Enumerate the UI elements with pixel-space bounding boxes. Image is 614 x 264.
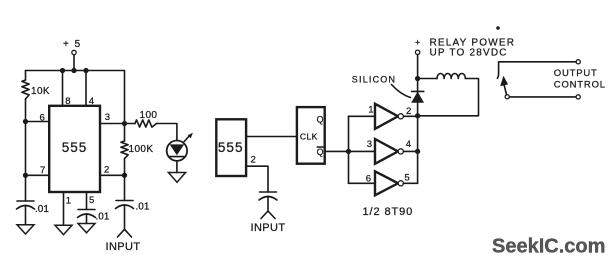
wire pin2 to C3 [124, 175, 126, 200]
svg-text:8: 8 [65, 96, 70, 107]
wire pin 3 [100, 112, 135, 124]
svg-text:+ 5: + 5 [63, 39, 82, 50]
capacitor C2 .01 [78, 210, 110, 223]
wire C3 to input arrow [124, 205, 126, 230]
wire C1 to ground [25, 205, 27, 224]
svg-text:CLK: CLK [300, 132, 318, 142]
relay contact armature [500, 76, 509, 99]
svg-text:+: + [415, 37, 420, 47]
svg-text:OUTPUT: OUTPUT [554, 68, 598, 79]
wire U2 pin 2 [246, 154, 268, 192]
svg-text:6: 6 [40, 113, 45, 124]
svg-text:5: 5 [89, 195, 94, 206]
wire U2 output to CLK [246, 136, 297, 138]
svg-text:4: 4 [406, 139, 411, 150]
capacitor C1 .01 [17, 201, 50, 215]
svg-text:1: 1 [66, 195, 71, 206]
wire +5 terminal to rail [73, 55, 75, 71]
svg-text:7: 7 [40, 165, 45, 176]
label OUTPUT CONTROL [554, 68, 606, 90]
node output junction 4 [415, 149, 420, 154]
ground pin1 [55, 225, 72, 234]
node rail junction pin8 [60, 68, 65, 73]
wire pin 1 [64, 192, 72, 225]
node input rail junction [346, 149, 351, 154]
wire pin 6 [26, 113, 50, 124]
node pin6 junction [23, 119, 28, 124]
wire C2 to ground [86, 214, 88, 224]
node pin3 junction [122, 121, 127, 126]
resistor R2 100 [135, 110, 157, 127]
svg-text:2: 2 [251, 154, 256, 165]
svg-text:2: 2 [406, 106, 411, 117]
wire Qbar output [325, 150, 349, 152]
resistor R1 10K [22, 80, 50, 99]
capacitor C3 .01 [116, 201, 150, 213]
ground C1 [17, 225, 34, 234]
IC U1 555 [49, 106, 100, 192]
svg-text:1: 1 [368, 104, 373, 115]
wire pin 7 [26, 165, 50, 176]
svg-text:1/2 8T90: 1/2 8T90 [363, 206, 414, 218]
wire +5 rail top [26, 71, 125, 124]
relay contact fixed line [497, 60, 580, 79]
node coil top junction [415, 76, 420, 81]
wire LED to ground [176, 161, 178, 173]
svg-text:6: 6 [366, 174, 371, 185]
stray footnote dot [496, 26, 500, 30]
node relay power terminal [415, 37, 420, 54]
wire pin 2 [100, 164, 125, 175]
inverter U4c pins 6-5 [349, 171, 418, 195]
svg-text:Q: Q [317, 147, 324, 157]
svg-text:SILICON: SILICON [352, 74, 396, 84]
svg-text:4: 4 [89, 96, 94, 107]
IC U3 flip-flop CLK [297, 107, 325, 164]
LED D1 [167, 133, 193, 161]
wire pin 4 [86, 71, 94, 108]
svg-text:100K: 100K [129, 144, 154, 155]
diode D2 silicon [412, 91, 424, 102]
svg-text:UP TO 28VDC: UP TO 28VDC [430, 48, 508, 59]
node +5 supply terminal [63, 39, 82, 55]
inverter U4b pins 3-4 [349, 139, 418, 164]
svg-text:.01: .01 [136, 202, 150, 213]
wire left rail upper [25, 71, 27, 81]
svg-text:SeekIC.com: SeekIC.com [492, 236, 605, 258]
node rail junction pin4 [83, 68, 88, 73]
wire pin 5 [87, 192, 95, 210]
node INPUT arrow left [118, 229, 132, 237]
svg-text:555: 555 [62, 140, 88, 155]
node rail junction supply [71, 68, 76, 73]
wire left rail lower [25, 99, 27, 201]
wire C4 to input arrow [267, 196, 269, 211]
inverter U4a pins 1-2 [349, 104, 418, 129]
svg-text:3: 3 [367, 139, 372, 150]
label SILICON with leader [352, 74, 411, 97]
IC U2 555 [216, 119, 246, 176]
ground C2 [78, 224, 95, 233]
svg-text:555: 555 [218, 140, 244, 155]
svg-text:3: 3 [105, 112, 110, 123]
svg-text:.01: .01 [35, 204, 49, 215]
node output junction 2 / coil return [415, 113, 420, 118]
svg-text:CONTROL: CONTROL [554, 80, 606, 91]
relay coil K1 [418, 73, 479, 115]
svg-text:INPUT: INPUT [106, 241, 141, 253]
svg-text:Q: Q [317, 115, 324, 125]
wire R2 to LED [157, 124, 177, 141]
node pin7 junction [23, 173, 28, 178]
wire inverter output rail [417, 55, 419, 184]
relay contact bottom line [509, 95, 580, 99]
svg-text:.01: .01 [96, 212, 110, 223]
ground LED [168, 173, 185, 183]
node pin2 junction [122, 173, 127, 178]
svg-text:100: 100 [140, 110, 158, 121]
capacitor C4 input coupling [259, 192, 277, 200]
node INPUT arrow middle [261, 211, 275, 219]
svg-text:2: 2 [104, 164, 109, 175]
resistor R3 100K [121, 124, 154, 176]
svg-text:5: 5 [404, 173, 409, 184]
wire pin 8 [63, 71, 71, 108]
wire inverter input rail [348, 116, 350, 183]
svg-text:INPUT: INPUT [251, 222, 286, 234]
svg-text:10K: 10K [31, 86, 50, 97]
